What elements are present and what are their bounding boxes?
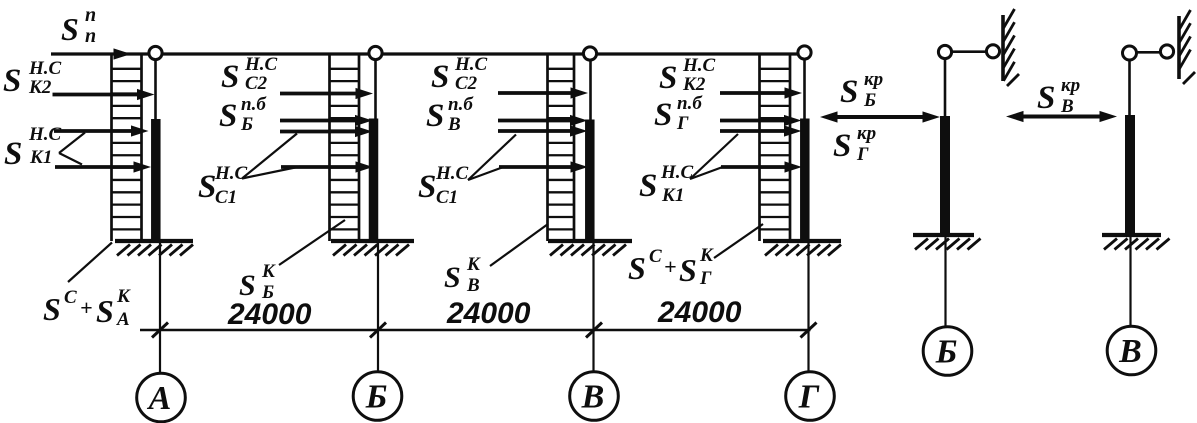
axis circle Г [786,372,835,421]
svg-text:К: К [261,261,276,282]
label SГ кр [833,123,876,165]
svg-text:+: + [80,295,93,320]
arrow SК1 lower (Г) [721,165,790,169]
label SС1 НС (Б) [198,163,248,208]
label SК1 НС (A) [4,124,62,172]
dimension line [140,329,811,332]
column В thick bar [585,120,595,242]
arrow SС2 (Б) [280,92,361,96]
svg-text:S: S [431,59,449,95]
axis circle right Б [923,327,972,376]
label Sп (top left) [61,4,96,47]
right column 2 link bar [1136,51,1161,54]
axis line right Б [944,235,946,327]
svg-text:В: В [447,114,461,135]
right column 2 hinge circle left [1123,46,1137,60]
arrow SК1 upper (Г) [720,129,790,133]
svg-text:S: S [840,74,858,110]
dimension tick Г [801,323,817,338]
right column 1 hinge circle right [986,45,999,58]
dimension tick A [152,323,168,338]
ground support right 1 [913,235,981,250]
wall support right 2 [1179,10,1195,84]
svg-text:S: S [61,11,79,47]
ground support right 2 [1102,235,1170,250]
arrow SК2 [53,93,143,97]
axis circle В [570,372,619,421]
right column 2 thin line [1128,58,1131,115]
svg-text:Б: Б [365,379,388,416]
leader SВ К [490,224,548,266]
svg-text:Н.С: Н.С [682,55,716,76]
label SС2 НС (Б) [221,54,278,95]
leader fork SК1 [59,133,85,165]
svg-text:Б: Б [935,334,958,371]
ground support Б [331,241,414,256]
svg-text:S: S [444,261,461,294]
arrow SВ пб [498,119,576,123]
label SC+SАК [43,286,131,330]
svg-text:В: В [1060,96,1074,117]
svg-text:п.б: п.б [448,94,474,115]
svg-text:S: S [43,291,61,327]
svg-text:S: S [426,98,444,134]
svg-text:Н.С: Н.С [454,54,488,75]
right column 2 hinge circle right [1160,45,1173,58]
svg-text:А: А [116,309,130,330]
axis line Б [377,241,379,372]
svg-text:S: S [1037,80,1055,116]
axis line В [592,241,594,372]
column Г top hinge circle [798,46,811,59]
load strip column A [112,54,142,241]
load strip column Б [330,54,360,241]
svg-text:С2: С2 [455,73,478,94]
svg-text:S: S [833,128,851,164]
svg-text:Н.С: Н.С [244,54,278,75]
leader fork SС1 (В) [468,135,516,181]
arrow SГ пб [720,119,790,123]
column A top hinge circle [149,46,162,59]
axis circle Б [353,372,402,421]
svg-text:Н.С: Н.С [28,124,62,145]
svg-text:К: К [116,286,131,307]
dimension tick В [586,323,602,338]
right column 1 link bar [952,50,987,53]
column A thin line [154,57,157,241]
arrow SК2 (Г) [720,91,790,95]
column Б thick bar [369,119,379,242]
column В thin line [589,57,592,241]
svg-text:24000: 24000 [446,297,531,330]
label SК2 НС (Г) [659,55,716,96]
column Б thin line [374,57,377,241]
right column 1 thick bar [940,116,950,235]
label SС1 НС (В) [418,163,469,208]
svg-text:24000: 24000 [657,296,742,329]
arrow SС2 (В) [498,91,576,95]
right column 1 hinge circle left [938,45,951,58]
svg-text:К1: К1 [661,185,684,206]
column Г thick bar [800,119,810,242]
svg-text:кр: кр [1061,75,1080,96]
ground support A [115,241,193,256]
svg-text:S: S [3,63,21,99]
svg-text:п.б: п.б [677,93,703,114]
svg-text:Г: Г [676,113,689,134]
label SС2 НС (В) [431,54,488,95]
svg-text:+: + [664,254,677,279]
label SC+SГК [628,245,714,289]
svg-text:К2: К2 [682,74,706,95]
leader fork SС1 (Б) [242,134,300,179]
label SК2 НС (A) [3,58,62,99]
svg-text:С2: С2 [245,73,268,94]
svg-text:п.б: п.б [241,94,267,115]
leader SC+SГК [714,224,763,258]
label SГ пб (Г) [654,93,703,134]
column В top hinge circle [583,47,596,60]
column Г thin line [803,57,806,241]
arrow SС1 lower (В) [499,165,576,169]
svg-text:C: C [649,246,662,267]
svg-text:Н.С: Н.С [435,163,469,184]
svg-text:C: C [64,287,77,308]
svg-text:Б: Б [261,282,274,303]
roof beam line [51,52,806,55]
svg-text:S: S [4,136,22,172]
ground support В [548,241,632,256]
label SК1 НС (Г) [639,162,694,206]
arrow SС1 upper (В) [498,129,576,133]
label SВ пб (В) [426,94,474,135]
svg-text:кр: кр [857,123,876,144]
axis line Г [807,241,809,372]
svg-text:S: S [239,269,256,302]
svg-text:S: S [679,252,697,288]
svg-text:К: К [699,245,714,266]
arrow SС1 upper (Б) [280,130,361,134]
label SБ пб (Б) [219,94,267,135]
svg-text:кр: кр [864,69,883,90]
svg-text:S: S [639,168,657,204]
svg-text:Г: Г [699,268,712,289]
label SВ кр [1037,75,1080,117]
wall support right 1 [1003,9,1019,86]
double arrow SБкр/SГкр [820,111,940,122]
label SВ К [444,254,481,296]
column A thick bar [151,119,161,241]
arrow SБ пб [280,119,361,123]
leader fork SК1 (Г) [690,134,738,179]
svg-text:В: В [466,275,480,296]
svg-text:Н.С: Н.С [660,162,694,183]
label SБ К [239,261,276,303]
leader SC+SАК [68,243,112,283]
svg-text:С1: С1 [215,187,237,208]
dimension tick Б [370,323,386,338]
svg-text:S: S [654,97,672,133]
svg-text:Б: Б [240,114,253,135]
axis circle right В [1107,326,1156,375]
load strip column В [548,54,575,241]
svg-text:Н.С: Н.С [214,163,248,184]
leader SБ К [279,220,345,265]
axis circle А [137,373,186,422]
axis line A [159,241,161,374]
right column 2 thick bar [1125,115,1135,235]
svg-text:К1: К1 [29,147,52,168]
svg-text:S: S [198,169,216,205]
svg-text:Г: Г [798,379,820,416]
arrow SК1 lower [55,165,139,169]
column Б top hinge circle [369,46,382,59]
svg-text:Г: Г [856,144,869,165]
svg-text:S: S [221,59,239,95]
double arrow SВкр [1006,111,1117,122]
svg-text:В: В [1118,333,1142,370]
svg-text:К2: К2 [28,77,52,98]
arrow SС1 lower (Б) [281,165,361,169]
svg-text:S: S [628,250,646,286]
arrow Sп top [114,48,132,59]
svg-text:п: п [85,4,96,26]
svg-text:А: А [147,380,172,417]
svg-text:S: S [219,98,237,134]
svg-text:К: К [466,254,481,275]
label SБ кр [840,69,883,111]
svg-text:S: S [96,293,114,329]
axis line right В [1129,235,1131,327]
svg-text:Н.С: Н.С [28,58,62,79]
right column 1 thin line [944,57,947,116]
arrow SК1 upper [54,129,137,133]
svg-text:п: п [85,25,96,47]
svg-text:Б: Б [863,90,876,111]
ground support Г [763,241,841,256]
svg-text:В: В [581,379,605,416]
load strip column Г [760,54,791,241]
svg-text:С1: С1 [436,187,458,208]
svg-text:S: S [418,169,436,205]
svg-text:S: S [659,60,677,96]
